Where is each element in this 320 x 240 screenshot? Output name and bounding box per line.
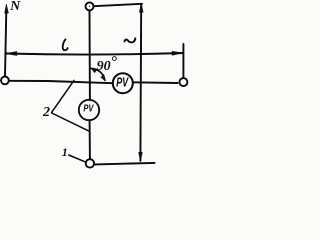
- node 1: bottom station circle: [86, 159, 94, 167]
- PV device circle (lower): [79, 100, 99, 120]
- node: right station circle: [179, 78, 187, 86]
- dimension arrowhead right: [172, 51, 183, 55]
- wire: central vertical line, upper segment: [89, 10, 91, 99]
- node: top station circle: [86, 2, 94, 10]
- leader line from label 2 to vertical line: [52, 113, 89, 131]
- right extension line: [182, 44, 184, 78]
- wire: main horizontal line, left segment: [9, 81, 113, 83]
- paper background: [0, 0, 191, 172]
- bottom extension line: [95, 163, 154, 165]
- svg-text:90: 90: [97, 59, 111, 74]
- north arrowhead: [5, 4, 9, 13]
- wire: main horizontal line, right segment: [133, 81, 178, 84]
- svg-text:1: 1: [62, 145, 68, 159]
- PV device circle (upper right): [113, 73, 133, 93]
- svg-text:PV: PV: [83, 103, 94, 115]
- node: left station circle: [1, 77, 9, 85]
- north arrow line: [5, 11, 6, 77]
- label l (script ell, horizontal dimension): [63, 39, 68, 50]
- center dot of top circle: [89, 6, 90, 7]
- svg-text:°: °: [111, 54, 118, 71]
- dimension line l (vertical, right): [139, 4, 142, 161]
- dimension arrowhead left: [6, 51, 17, 55]
- top extension line: [94, 4, 142, 6]
- svg-text:PV: PV: [116, 76, 129, 90]
- dimension line l (horizontal): [6, 53, 183, 55]
- dimension arrowhead down: [139, 152, 143, 161]
- leader line from label 1 to bottom circle: [69, 155, 85, 162]
- wire: central vertical line, lower segment: [89, 120, 91, 159]
- svg-text:N: N: [9, 0, 21, 14]
- leader line from label 2 to horizontal line: [52, 80, 74, 112]
- label l (script ell, rotated, vertical dimension): [125, 38, 136, 42]
- dimension arrowhead up: [139, 3, 143, 12]
- angle arc 90 deg with arrowheads: [91, 68, 105, 80]
- svg-text:2: 2: [42, 105, 50, 120]
